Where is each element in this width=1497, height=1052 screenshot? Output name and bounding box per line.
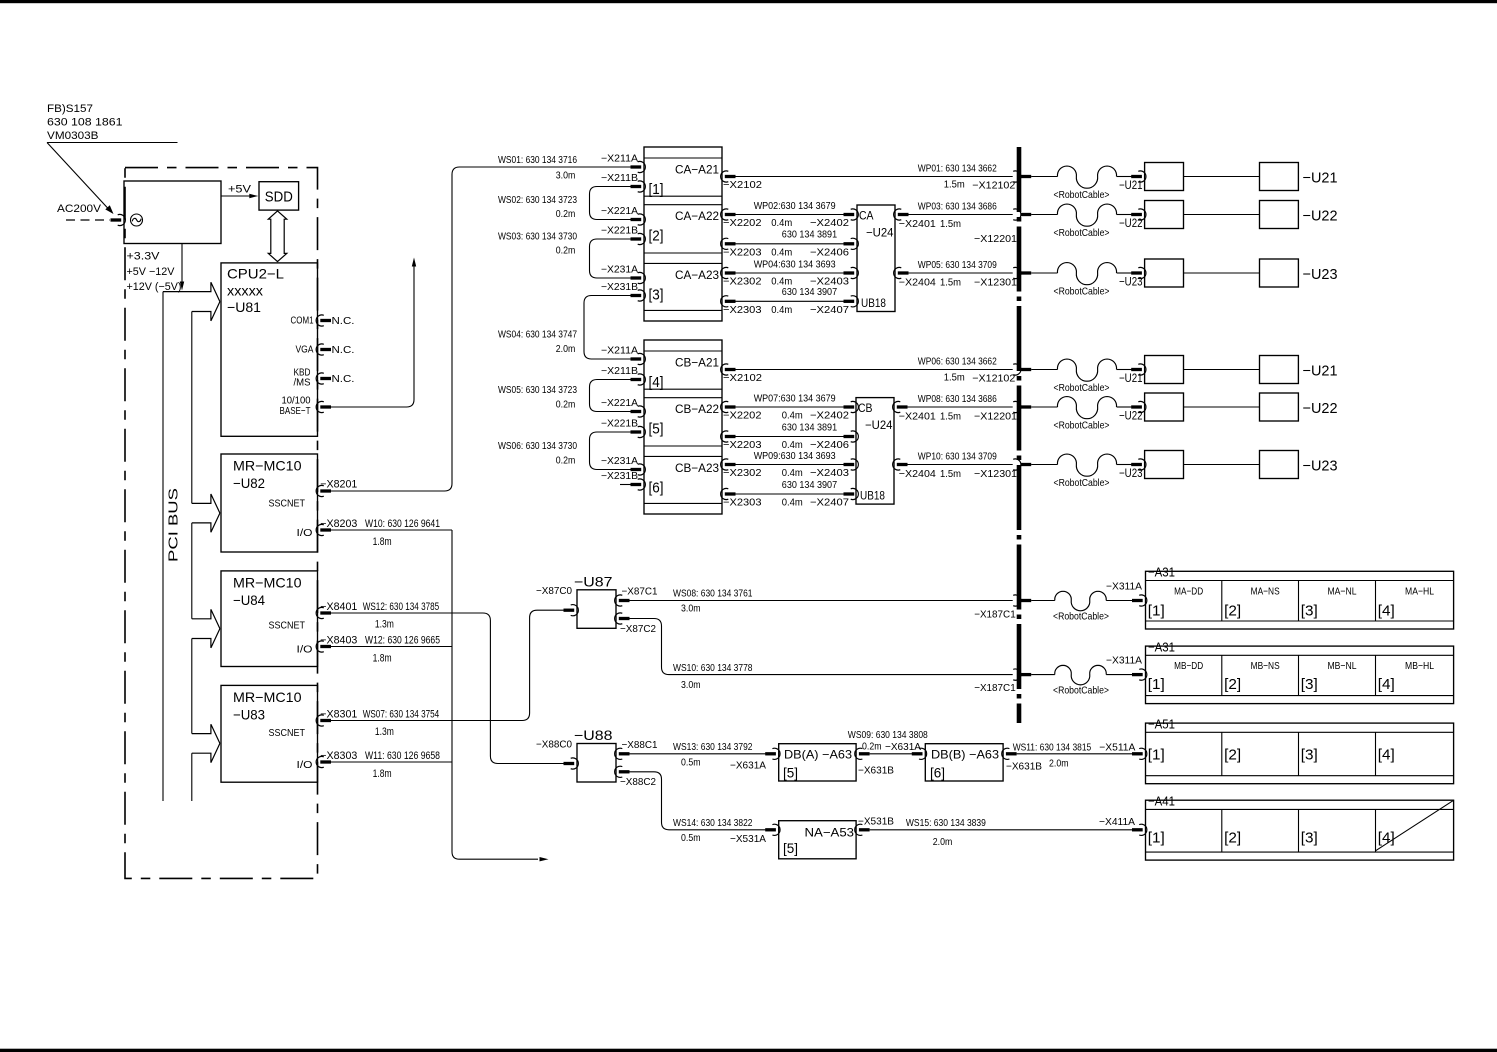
svg-text:0.4m: 0.4m xyxy=(771,217,792,229)
svg-text:630 134 3907: 630 134 3907 xyxy=(782,286,837,298)
CB stack divider line xyxy=(644,455,722,457)
svg-text:−X2403: −X2403 xyxy=(810,467,849,479)
svg-text:1.3m: 1.3m xyxy=(375,726,394,738)
svg-text:−X231B: −X231B xyxy=(601,471,638,482)
svg-text:2.0m: 2.0m xyxy=(1049,758,1069,770)
connector DB(A) left -X631A xyxy=(772,748,780,759)
svg-text:−U23: −U23 xyxy=(1119,275,1143,289)
svg-text:−X12102: −X12102 xyxy=(972,180,1015,192)
wire CA −X2303 to U24 xyxy=(736,300,845,302)
CA distributor stack outer box xyxy=(644,147,722,321)
svg-text:[1]: [1] xyxy=(649,181,664,198)
svg-text:CB−A23: CB−A23 xyxy=(675,461,719,475)
wire CB −X2302 to U24 xyxy=(736,464,845,466)
svg-text:−X88C0: −X88C0 xyxy=(536,739,572,751)
bulkhead connector row −U21 xyxy=(1013,171,1021,182)
motor box −U21 xyxy=(1260,163,1299,191)
wire W10/W12/W11 bus to I/O xyxy=(331,529,452,531)
wire WS15 to A41 xyxy=(870,829,1132,831)
motor connector box −U23 xyxy=(1145,259,1184,287)
motor box −U21 xyxy=(1260,356,1299,384)
−A51 inner bottom line xyxy=(1146,775,1454,777)
robot cable squiggle row 674.6 xyxy=(1031,674,1055,676)
svg-text:WS07: 630 134 3754: WS07: 630 134 3754 xyxy=(363,708,440,720)
svg-text:3.0m: 3.0m xyxy=(681,603,701,615)
connector CB U24 −X2402 xyxy=(851,401,859,412)
PCI bus line B segment 4 xyxy=(191,753,193,801)
svg-text:−U23: −U23 xyxy=(1303,266,1338,283)
svg-text:−U82: −U82 xyxy=(233,475,265,491)
svg-text:CB−A22: CB−A22 xyxy=(675,402,719,416)
junction DB(B) -A63 box xyxy=(925,744,1003,781)
svg-text:0.2m: 0.2m xyxy=(556,245,576,257)
svg-text:SSCNET: SSCNET xyxy=(269,498,306,510)
hub -U87 box xyxy=(577,590,616,629)
svg-text:W10: 630 126 9641: W10: 630 126 9641 xyxy=(365,518,440,530)
svg-text:−X2202: −X2202 xyxy=(723,410,762,422)
svg-text:−X211A: −X211A xyxy=(601,154,638,165)
svg-text:−X631A: −X631A xyxy=(885,741,921,753)
svg-text:WS02: 630 134 3723: WS02: 630 134 3723 xyxy=(498,194,577,206)
CA stack divider line xyxy=(644,195,722,197)
CA stack divider line xyxy=(644,204,722,206)
svg-text:−U21: −U21 xyxy=(1303,363,1338,380)
wire CB −X2202 to U24 xyxy=(736,406,845,408)
svg-text:−X2406: −X2406 xyxy=(810,246,849,258)
connector CA U24 −X2402 xyxy=(851,209,859,220)
svg-text:3.0m: 3.0m xyxy=(681,679,701,691)
svg-text:0.4m: 0.4m xyxy=(782,410,803,422)
−A41 inner bottom line xyxy=(1146,851,1454,853)
svg-text:−X2303: −X2303 xyxy=(723,304,762,316)
bulkhead connector row −U23 xyxy=(1013,459,1021,470)
wire CB −X2303 to U24 xyxy=(736,493,845,495)
svg-text:−U81: −U81 xyxy=(227,299,261,315)
svg-text:[3]: [3] xyxy=(1301,747,1318,764)
−A51 cell divider xyxy=(1375,732,1377,775)
svg-text:−U83: −U83 xyxy=(233,706,265,722)
svg-text:−X631B: −X631B xyxy=(1006,761,1042,773)
connector CB −X2202 xyxy=(721,401,729,412)
connector into motor box −U21 xyxy=(1131,368,1142,371)
svg-text:WS14: 630 134 3822: WS14: 630 134 3822 xyxy=(673,817,753,829)
−A31 inner top line xyxy=(1146,580,1454,582)
svg-text:−X88C2: −X88C2 xyxy=(620,776,656,788)
svg-text:−X8403: −X8403 xyxy=(320,634,357,646)
svg-text:WS10: 630 134 3778: WS10: 630 134 3778 xyxy=(673,662,753,674)
svg-text:0.2m: 0.2m xyxy=(556,399,576,411)
svg-text:WS12: 630 134 3785: WS12: 630 134 3785 xyxy=(363,601,440,613)
loop WS05 CB X211B-X221A xyxy=(590,380,632,412)
svg-text:−X12301: −X12301 xyxy=(974,468,1017,480)
connector -X8203 xyxy=(316,524,324,535)
svg-text:VGA: VGA xyxy=(296,344,314,356)
connector −X221B (stack left) xyxy=(638,426,646,437)
svg-text:1.5m: 1.5m xyxy=(944,372,965,384)
connector CB U24 right out xyxy=(893,459,901,470)
motor connector box −U21 xyxy=(1145,163,1184,191)
svg-text:−U24: −U24 xyxy=(865,418,893,432)
svg-text:[2]: [2] xyxy=(1224,603,1241,620)
svg-text:MB−NS: MB−NS xyxy=(1251,660,1280,672)
svg-text:−X12201: −X12201 xyxy=(974,411,1017,423)
svg-text:<RobotCable>: <RobotCable> xyxy=(1054,420,1110,432)
svg-text:−X221B: −X221B xyxy=(601,226,638,237)
connector NA right -X531B xyxy=(855,824,863,835)
svg-text:3.0m: 3.0m xyxy=(556,170,576,182)
svg-text:CA−A21: CA−A21 xyxy=(675,163,719,177)
svg-text:+3.3V: +3.3V xyxy=(127,251,161,263)
svg-text:I/O: I/O xyxy=(297,759,313,771)
motor box −U23 xyxy=(1260,259,1299,287)
svg-text:<RobotCable>: <RobotCable> xyxy=(1054,286,1110,298)
connector -X8403 xyxy=(316,641,324,652)
connector −X211B (stack left) xyxy=(638,181,646,192)
motor box −U23 xyxy=(1260,451,1299,479)
−A51 inner top line xyxy=(1146,731,1454,733)
svg-text:WP10: 630 134 3709: WP10: 630 134 3709 xyxy=(918,451,997,463)
svg-text:W12: 630 126 9665: W12: 630 126 9665 xyxy=(365,634,440,646)
junction DB(A) -A63 box xyxy=(779,744,856,781)
wire CA U24 to bulkhead xyxy=(909,272,1013,274)
svg-text:−X2102: −X2102 xyxy=(723,179,762,191)
connector CA −X2202 xyxy=(721,209,729,220)
svg-text:[4]: [4] xyxy=(1378,676,1395,693)
svg-text:−X8303: −X8303 xyxy=(320,750,357,762)
−A51 cell divider xyxy=(1221,732,1223,775)
svg-text:−X511A: −X511A xyxy=(1099,742,1135,754)
svg-text:WP08: 630 134 3686: WP08: 630 134 3686 xyxy=(918,393,997,405)
svg-text:1.5m: 1.5m xyxy=(940,218,961,230)
svg-text:MR−MC10: MR−MC10 xyxy=(233,689,302,705)
svg-text:DB(A) −A63: DB(A) −A63 xyxy=(784,748,852,762)
connector CB −X2302 xyxy=(721,459,729,470)
connector -X87C1 xyxy=(615,595,623,606)
svg-text:[5]: [5] xyxy=(649,421,664,438)
svg-text:MR−MC10: MR−MC10 xyxy=(233,458,302,474)
power supply unit box xyxy=(124,181,221,244)
svg-text:−X2401: −X2401 xyxy=(899,218,936,230)
−A31 cell divider xyxy=(1221,655,1223,695)
svg-text:WP06: 630 134 3662: WP06: 630 134 3662 xyxy=(918,356,997,368)
connector CA −X2303 xyxy=(721,296,729,307)
wire −U23 xyxy=(1184,272,1260,274)
PCI bus arrow into CPU2-L xyxy=(163,282,220,301)
connector -X87C0 xyxy=(571,605,579,616)
svg-text:−X12301: −X12301 xyxy=(974,277,1017,289)
connector A51 input xyxy=(1132,752,1143,755)
svg-text:2.0m: 2.0m xyxy=(556,343,576,355)
connector CB −X2303 xyxy=(721,488,729,499)
svg-text:AC200V: AC200V xyxy=(57,203,102,215)
connector CB U24 −X2407 xyxy=(851,488,859,499)
svg-text:−X2202: −X2202 xyxy=(723,217,762,229)
−A31 cell divider xyxy=(1298,655,1300,695)
svg-text:1.8m: 1.8m xyxy=(373,536,392,548)
svg-text:WS01: 630 134 3716: WS01: 630 134 3716 xyxy=(498,154,577,166)
svg-text:WS11: 630 134 3815: WS11: 630 134 3815 xyxy=(1013,742,1092,754)
svg-text:−X2401: −X2401 xyxy=(899,411,936,423)
wire CA U24 to bulkhead xyxy=(909,214,1013,216)
motor connector box −U22 xyxy=(1145,201,1184,229)
wire −U21 xyxy=(1184,176,1260,178)
wire WS07 X8301 to X87C0 xyxy=(331,610,564,720)
svg-text:[2]: [2] xyxy=(1224,830,1241,847)
svg-text:[5]: [5] xyxy=(783,765,798,781)
svg-text:−X12201: −X12201 xyxy=(974,233,1017,245)
svg-text:−X8203: −X8203 xyxy=(320,518,357,530)
svg-text:MA−NS: MA−NS xyxy=(1251,585,1280,597)
connector NA left -X531A xyxy=(772,824,780,835)
svg-text:−U22: −U22 xyxy=(1303,400,1338,417)
connector into strip row 674.6 xyxy=(1132,673,1143,676)
svg-text:−A31: −A31 xyxy=(1148,565,1175,580)
wire CA −X2202 to U24 xyxy=(736,214,845,216)
bulkhead connector row −U21 xyxy=(1013,364,1021,375)
svg-text:−X87C2: −X87C2 xyxy=(620,623,656,635)
connector DB(B) right -X631B xyxy=(1002,748,1010,759)
svg-text:CB: CB xyxy=(858,401,873,415)
connector CA U24 −X2403 xyxy=(851,267,859,278)
svg-text:−U21: −U21 xyxy=(1119,371,1143,385)
svg-text:[1]: [1] xyxy=(1148,603,1165,620)
loop WS06 CB X221B-X231A xyxy=(590,432,632,470)
svg-text:−X211A: −X211A xyxy=(601,346,638,357)
svg-text:−X12102: −X12102 xyxy=(972,373,1015,385)
connector CA U24 −X2407 xyxy=(851,296,859,307)
svg-text:[6]: [6] xyxy=(649,479,664,496)
robot cable squiggle −U22 xyxy=(1031,406,1057,408)
svg-text:−X231B: −X231B xyxy=(601,282,638,293)
bottom border bar xyxy=(0,1049,1497,1052)
svg-text:N.C.: N.C. xyxy=(332,344,355,356)
svg-text:−X211B: −X211B xyxy=(601,173,638,184)
CA stack divider line xyxy=(644,252,722,254)
wire CB X2102 to bulkhead xyxy=(736,369,1013,371)
svg-text:[3]: [3] xyxy=(1301,676,1318,693)
svg-text:N.C.: N.C. xyxy=(332,315,355,327)
connector CA −X2203 xyxy=(721,238,729,249)
robot cable squiggle −U23 xyxy=(1031,464,1057,466)
svg-text:NA−A53: NA−A53 xyxy=(805,826,855,840)
svg-text:0.4m: 0.4m xyxy=(782,467,803,479)
motor connector box −U21 xyxy=(1145,356,1184,384)
svg-text:[3]: [3] xyxy=(1301,603,1318,620)
connector CB U24 −X2403 xyxy=(851,459,859,470)
svg-text:SSCNET: SSCNET xyxy=(269,620,306,632)
connector -X88C0 xyxy=(571,758,579,769)
wire BASE-T to network (arrow up) xyxy=(331,266,414,407)
bulkhead connector X187C1 row 600.5 xyxy=(1013,595,1021,606)
−A31 cell divider xyxy=(1298,581,1300,622)
svg-text:xxxxx: xxxxx xyxy=(227,283,263,299)
connector -X88C1 xyxy=(615,748,623,759)
svg-text:−X231A: −X231A xyxy=(601,265,638,276)
svg-text:−A31: −A31 xyxy=(1148,639,1175,654)
svg-text:0.4m: 0.4m xyxy=(782,497,803,509)
svg-text:−U23: −U23 xyxy=(1303,458,1338,475)
svg-text:WP07:630 134 3679: WP07:630 134 3679 xyxy=(754,393,836,405)
svg-text:−X8301: −X8301 xyxy=(320,708,357,720)
svg-text:CPU2−L: CPU2−L xyxy=(227,266,284,282)
robot cable squiggle −U21 xyxy=(1031,176,1057,178)
wire −U23 xyxy=(1184,464,1260,466)
connector −X231B (stack left) xyxy=(638,479,646,490)
CA stack divider line xyxy=(644,157,722,159)
CB stack divider line xyxy=(644,397,722,399)
svg-text:1.3m: 1.3m xyxy=(375,619,394,631)
svg-text:−X87C0: −X87C0 xyxy=(536,585,572,597)
junction NA -A53 box xyxy=(779,821,856,859)
svg-text:FB)S157: FB)S157 xyxy=(47,103,93,115)
PCI bus line B segment 1 xyxy=(191,312,193,504)
hub -U88 box xyxy=(577,744,616,783)
svg-text:630 108 1861: 630 108 1861 xyxy=(47,117,123,129)
wire WS11 to A51 xyxy=(1017,753,1132,755)
svg-text:[3]: [3] xyxy=(649,286,664,303)
terminal strip −A51 outer box xyxy=(1146,723,1454,784)
−A31 inner top line xyxy=(1146,654,1454,656)
connector CA -X2102 xyxy=(721,171,729,182)
connector CB -X2102 xyxy=(721,364,729,375)
svg-text:−A41: −A41 xyxy=(1148,794,1175,809)
−A31 inner bottom line xyxy=(1146,695,1454,697)
svg-text:MB−DD: MB−DD xyxy=(1174,660,1203,672)
connector DB(A) right -X631B xyxy=(855,748,863,759)
svg-text:WP09:630 134 3693: WP09:630 134 3693 xyxy=(754,450,836,462)
connector A41 input xyxy=(1132,828,1143,831)
PCI bus arrow into U82 xyxy=(192,494,220,513)
svg-text:[4]: [4] xyxy=(1378,747,1395,764)
junction box CB -U24 UB18 xyxy=(856,398,894,505)
svg-text:630 134 3891: 630 134 3891 xyxy=(782,229,837,241)
svg-text:1.5m: 1.5m xyxy=(944,179,965,191)
bulkhead connector row −U22 xyxy=(1013,209,1021,220)
robot cable squiggle row 600.5 xyxy=(1031,600,1055,602)
svg-text:−X411A: −X411A xyxy=(1099,816,1135,828)
bulkhead connector row −U23 xyxy=(1013,267,1021,278)
svg-text:CA−A23: CA−A23 xyxy=(675,268,719,282)
wire WS08 X87C1 to X187C1 xyxy=(630,600,1013,602)
−A41 diagonal strike xyxy=(1376,801,1453,851)
svg-text:<RobotCable>: <RobotCable> xyxy=(1053,684,1109,696)
connector -X88C2 xyxy=(615,766,623,777)
svg-text:MA−NL: MA−NL xyxy=(1328,585,1357,597)
svg-text:CB−A21: CB−A21 xyxy=(675,356,719,370)
svg-text:WS06: 630 134 3730: WS06: 630 134 3730 xyxy=(498,440,577,452)
SDD box xyxy=(259,182,299,210)
−A41 cell divider xyxy=(1221,809,1223,852)
svg-text:UB18: UB18 xyxy=(861,296,886,310)
connector −X221A (stack left) xyxy=(638,406,646,417)
svg-text:MB−HL: MB−HL xyxy=(1405,660,1434,672)
loop WS03 X221B-X231A xyxy=(590,239,632,278)
svg-text:−X2404: −X2404 xyxy=(899,277,936,289)
connector into motor box −U21 xyxy=(1131,175,1142,178)
svg-text:N.C.: N.C. xyxy=(332,373,355,385)
svg-text:−X2407: −X2407 xyxy=(810,497,849,509)
svg-text:[1]: [1] xyxy=(1148,830,1165,847)
−A41 cell divider xyxy=(1375,809,1377,852)
connector AC input at PSU xyxy=(111,218,122,221)
connector −X221B (stack left) xyxy=(638,233,646,244)
svg-text:WP01: 630 134 3662: WP01: 630 134 3662 xyxy=(918,163,997,175)
svg-text:WS03: 630 134 3730: WS03: 630 134 3730 xyxy=(498,231,577,243)
bulkhead connector X187C1 row 674.6 xyxy=(1013,669,1021,680)
svg-text:−X231A: −X231A xyxy=(601,456,638,467)
AC source symbol (circle with sine) xyxy=(131,214,143,226)
svg-text:−X88C1: −X88C1 xyxy=(622,739,658,751)
connector into motor box −U23 xyxy=(1131,271,1142,274)
svg-text:1.8m: 1.8m xyxy=(373,768,392,780)
svg-text:WP03: 630 134 3686: WP03: 630 134 3686 xyxy=(918,201,997,213)
wire CB −X2203 to U24 xyxy=(736,436,845,438)
wire CB U24 to bulkhead xyxy=(908,406,1013,408)
svg-text:−U87: −U87 xyxy=(574,573,613,589)
svg-text:WS09: 630 134 3808: WS09: 630 134 3808 xyxy=(848,729,928,741)
CA stack divider line xyxy=(644,262,722,264)
bidirectional hollow arrow SDD-CPU xyxy=(268,211,287,262)
−A41 inner top line xyxy=(1146,808,1454,810)
svg-text:I/O: I/O xyxy=(297,644,313,656)
svg-text:SSCNET: SSCNET xyxy=(269,727,306,739)
svg-text:W11: 630 126 9658: W11: 630 126 9658 xyxy=(365,750,440,762)
svg-text:WS13: 630 134 3792: WS13: 630 134 3792 xyxy=(673,741,753,753)
wire −U22 xyxy=(1184,406,1260,408)
svg-text:[2]: [2] xyxy=(1224,676,1241,693)
svg-text:−X87C1: −X87C1 xyxy=(622,586,658,598)
svg-text:MA−HL: MA−HL xyxy=(1405,585,1434,597)
cabinet bulkhead divider (thick dash-dot) xyxy=(1017,147,1022,723)
−A31 inner bottom line xyxy=(1146,620,1454,622)
svg-text:−X2302: −X2302 xyxy=(723,276,762,288)
robot cable squiggle −U22 xyxy=(1031,214,1057,216)
PCI bus line A xyxy=(162,292,164,801)
connector CB −X2203 xyxy=(721,431,729,442)
leader line with arrow to PSU input xyxy=(47,142,178,144)
wire CA X2102 to bulkhead xyxy=(736,176,1013,178)
svg-text:−X211B: −X211B xyxy=(601,366,638,377)
PCI bus arrow into U83 xyxy=(192,724,220,743)
CB stack divider line xyxy=(644,388,722,390)
svg-text:−U21: −U21 xyxy=(1303,170,1338,187)
svg-text:COM1: COM1 xyxy=(291,315,314,327)
svg-text:[1]: [1] xyxy=(1148,676,1165,693)
MR-MC10 -U82 box xyxy=(221,454,318,552)
−A31 cell divider xyxy=(1375,581,1377,622)
svg-text:<RobotCable>: <RobotCable> xyxy=(1054,382,1110,394)
terminal strip −A31 outer box xyxy=(1146,571,1454,629)
svg-text:−X221B: −X221B xyxy=(601,419,638,430)
connector CA −X2302 xyxy=(721,267,729,278)
connector -X8201 xyxy=(316,485,324,496)
svg-text:−X311A: −X311A xyxy=(1106,581,1142,593)
svg-text:−X2302: −X2302 xyxy=(723,467,762,479)
wire CA −X2203 to U24 xyxy=(736,243,845,245)
bulkhead connector row −U22 xyxy=(1013,401,1021,412)
wire W12 to I/O bus xyxy=(331,646,452,648)
wire WS13 X88C1 to DB(A) xyxy=(630,753,766,755)
wire WS01 X8201 to X211A xyxy=(331,167,631,491)
svg-text:0.2m: 0.2m xyxy=(556,208,576,220)
svg-text:0.5m: 0.5m xyxy=(681,832,701,844)
svg-text:WS05: 630 134 3723: WS05: 630 134 3723 xyxy=(498,384,577,396)
wire CB U24 to bulkhead xyxy=(908,464,1013,466)
wire WS09 DB(A)-DB(B) xyxy=(870,753,913,755)
svg-text:[2]: [2] xyxy=(649,228,664,245)
terminal strip −A31 outer box xyxy=(1146,646,1454,704)
svg-text:−A51: −A51 xyxy=(1148,716,1175,731)
